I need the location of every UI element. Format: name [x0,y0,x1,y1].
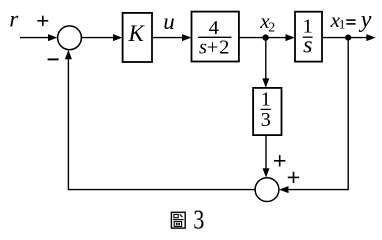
plus sign at summing junction S1 [37,16,48,26]
block G1 4/(s+2) [192,12,239,62]
block G3 1/3 [253,88,281,135]
svg-text:y: y [359,7,372,33]
wire x2 down to block G3 [262,38,269,88]
wire G1 to block G2 [239,34,295,41]
svg-text:s+2: s+2 [199,37,229,59]
caption number 3 [193,205,204,235]
block K [123,13,152,62]
svg-text:2: 2 [268,21,275,36]
plus sign for G3 input at S2 [274,155,285,166]
node u label [163,9,175,34]
svg-text:3: 3 [193,205,204,235]
wire S2 left and up to S1 minus input [65,50,255,190]
wire G3 down to summing junction S2 [263,135,270,178]
svg-text:r: r [9,7,19,32]
svg-text:s: s [303,32,312,58]
node x2 label [259,9,275,36]
wire S1 to block K [82,34,123,41]
node x1 = y label [330,7,372,33]
wire y node down and left to S2 [279,38,348,194]
block G2 1/s [295,12,322,62]
summing junction S1 [58,26,82,50]
plus sign for feedback input at S2 [288,172,299,183]
wire r to summing junction S1 [20,34,57,41]
svg-text:u: u [163,9,175,34]
caption glyph 圖 (figure) [171,212,185,228]
node x2 junction dot [262,34,268,40]
node r input label [9,7,19,32]
wire K to block G1 [152,34,191,41]
wire G2 to output y [322,34,376,41]
svg-text:K: K [128,21,146,46]
svg-text:3: 3 [261,109,271,131]
svg-text:1: 1 [339,17,346,32]
node y junction dot [345,35,351,41]
svg-text:1: 1 [261,89,271,111]
minus sign at summing junction S1 [48,58,59,60]
svg-text:4: 4 [209,17,219,39]
summing junction S2 [255,178,279,202]
